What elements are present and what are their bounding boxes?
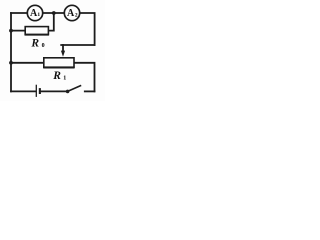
switch lever: [68, 85, 82, 91]
svg-text:1: 1: [63, 75, 66, 81]
battery cell: short thick plate: [39, 88, 41, 94]
svg-text:A: A: [67, 8, 75, 19]
wire slider horizontal from right vertical: [61, 44, 94, 46]
rheostat slider arrowhead: [61, 51, 65, 57]
node junction dot top: [52, 11, 56, 15]
ammeter A1: [27, 5, 42, 20]
switch pivot dot: [66, 90, 70, 94]
wire A1 to A2: [43, 12, 65, 14]
node junction dot left lower (R1 branch): [9, 61, 13, 65]
wire switch pivot to battery: [41, 90, 68, 92]
ammeter A2: [64, 5, 79, 20]
svg-text:0: 0: [42, 43, 45, 49]
svg-text:R: R: [52, 70, 61, 82]
wire middle branch to R1: [11, 62, 44, 64]
wire bottom right of switch: [85, 90, 95, 92]
svg-text:R: R: [30, 37, 39, 49]
label R1: [52, 70, 66, 82]
resistor R0: [25, 27, 48, 35]
wire bottom left of battery: [11, 90, 36, 92]
wire A2 to top-right corner and right vertical down to slider: [80, 13, 95, 45]
wire slider vertical drop: [62, 45, 64, 51]
resistor R1 (rheostat body): [44, 58, 74, 67]
wire left vertical: [10, 13, 12, 91]
label R0: [30, 37, 44, 49]
wire top-left to A1: [11, 12, 27, 14]
wire R1 to right edge and down: [74, 63, 95, 92]
battery cell: long plate: [35, 85, 37, 97]
wire R0 right branch up to junction: [48, 13, 53, 31]
svg-text:1: 1: [37, 12, 40, 18]
node junction dot left upper (R0 branch): [9, 29, 13, 33]
wire R0 left branch: [11, 30, 25, 32]
svg-text:2: 2: [75, 12, 78, 18]
